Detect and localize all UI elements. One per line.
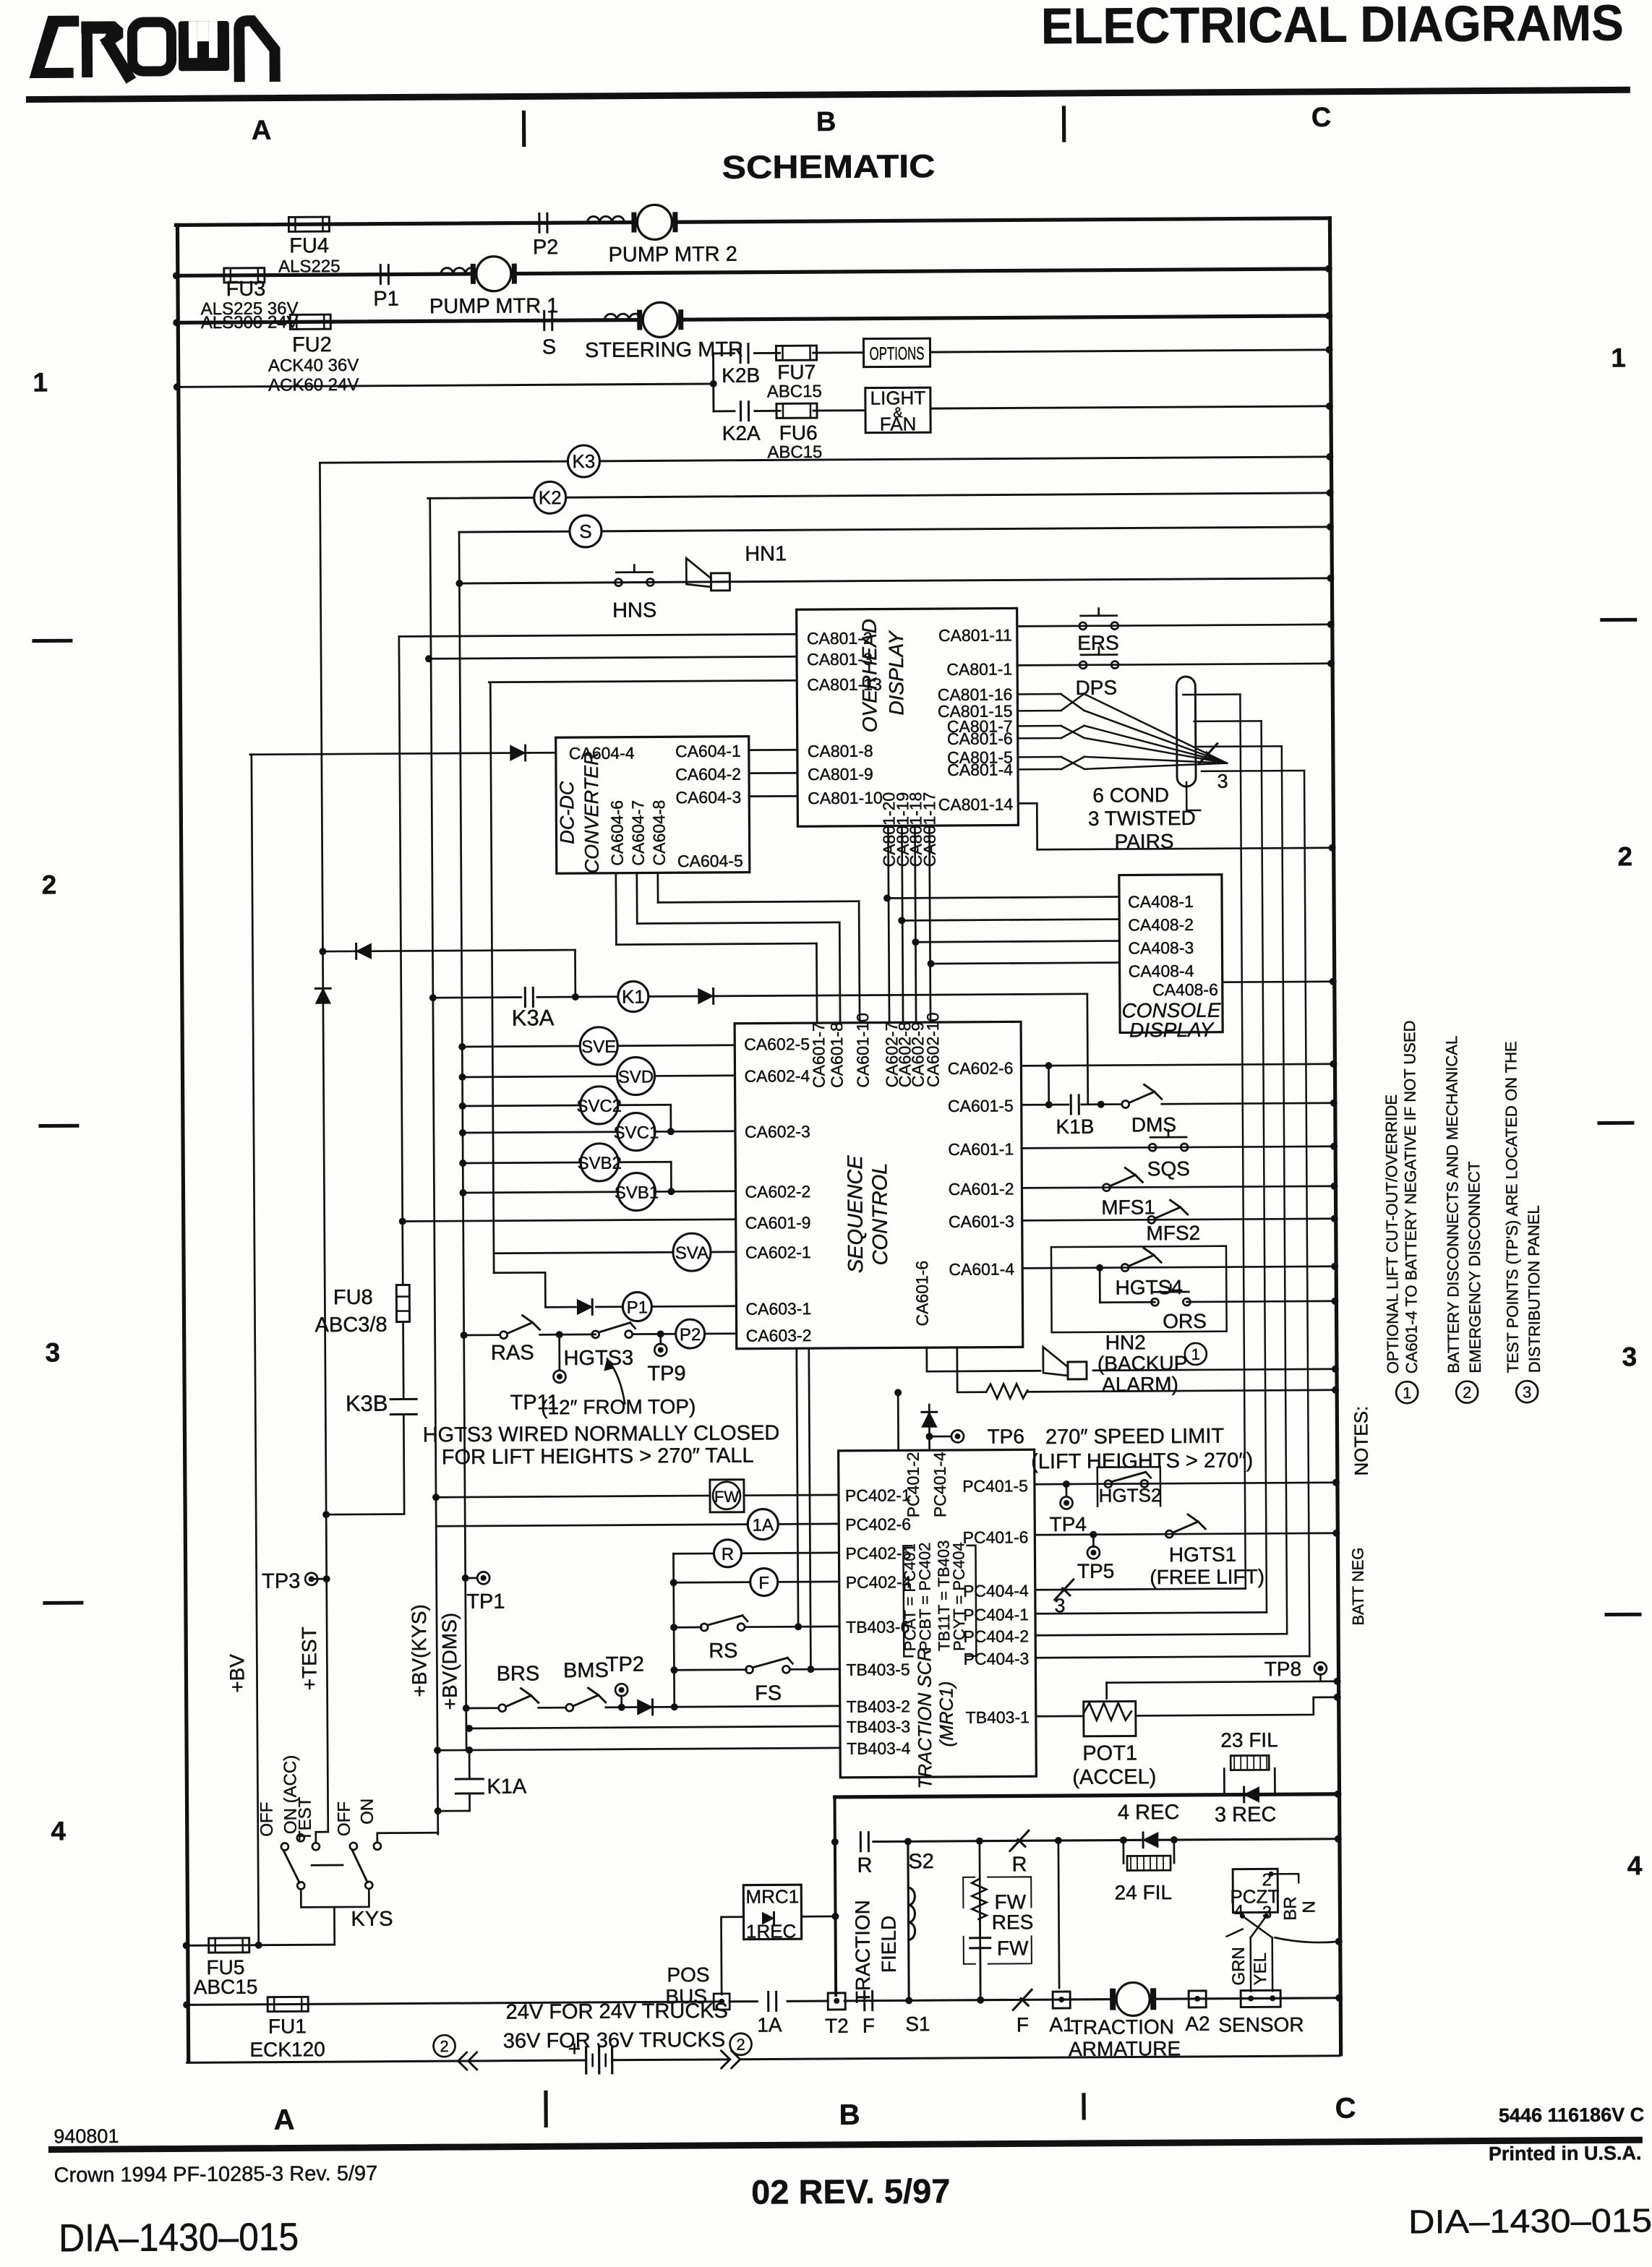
svg-text:PUMP MTR 2: PUMP MTR 2 <box>608 243 737 267</box>
svg-text:CA602-1: CA602-1 <box>745 1243 811 1262</box>
twisted pair at y962 <box>1061 694 1084 711</box>
wire rail x682 <box>490 682 494 1273</box>
slash 3-conductor DPS <box>1199 744 1217 764</box>
wire OPTIONS to bus <box>930 350 1330 352</box>
wire CA602-6 to K1B <box>1048 1066 1050 1105</box>
svg-text:2: 2 <box>440 2037 448 2055</box>
svg-text:F: F <box>863 2015 875 2037</box>
wire PC404-2 row <box>1035 1634 1287 1635</box>
contact K1A <box>455 1778 483 1780</box>
wire PC404-1 row <box>1035 1612 1267 1614</box>
node 24FIL left <box>1120 1837 1127 1844</box>
switch BRS <box>499 1705 506 1712</box>
wire resistor to bus <box>1027 1390 1335 1392</box>
svg-text:940801: 940801 <box>54 2125 119 2148</box>
svg-text:RS: RS <box>709 1640 737 1663</box>
wire CA408-6 to bus <box>1223 980 1333 983</box>
svg-text:DC-DC: DC-DC <box>556 781 578 844</box>
wire POT1 wiper to bus <box>1107 1681 1338 1683</box>
svg-text:(LIFT HEIGHTS > 270″): (LIFT HEIGHTS > 270″) <box>1031 1449 1253 1473</box>
contact 1A <box>767 1992 769 2010</box>
svg-text:C: C <box>1335 2093 1356 2125</box>
svg-text:ORS: ORS <box>1163 1310 1207 1332</box>
svg-text:2: 2 <box>1617 841 1632 871</box>
svg-text:PC404-1: PC404-1 <box>963 1605 1029 1624</box>
wire to ORS <box>1099 1268 1101 1303</box>
svg-text:F: F <box>758 1573 769 1593</box>
svg-text:K2: K2 <box>539 487 562 508</box>
node +BV(KYS) PC402-1 tap <box>432 1494 440 1501</box>
test point TP2 <box>615 1684 628 1696</box>
node right bus 4REC <box>1335 1835 1342 1843</box>
svg-text:FW: FW <box>714 1488 740 1506</box>
node right bus S <box>1327 523 1334 531</box>
svg-text:(BACKUP: (BACKUP <box>1097 1352 1188 1375</box>
contact K1B <box>1070 1095 1072 1114</box>
test point TP9 <box>654 1344 667 1356</box>
switch HGTS4 <box>1121 1264 1129 1271</box>
svg-text:Printed in U.S.A.: Printed in U.S.A. <box>1489 2142 1642 2164</box>
motor TRACTION ARMATURE <box>1116 1982 1150 2015</box>
svg-text:4 REC: 4 REC <box>1118 1801 1180 1825</box>
svg-text:S: S <box>542 335 557 359</box>
wire CA801-20/CA602-7 link <box>888 826 889 1022</box>
wire FU5 row <box>187 1945 335 1945</box>
svg-text:(12″ FROM TOP): (12″ FROM TOP) <box>541 1395 696 1418</box>
wire drop vertical x1748 <box>1262 721 1267 1612</box>
svg-text:YEL: YEL <box>1251 1953 1270 1986</box>
header rule <box>29 90 1627 99</box>
node CA408-2 tap <box>898 917 905 924</box>
box U-SEQUENCE-CONTROL <box>735 1021 1023 1348</box>
wire CA801-18/CA602-9 link <box>915 826 916 1022</box>
chevrons right <box>722 2051 730 2060</box>
node right bus CA601-4 <box>1331 1263 1338 1270</box>
svg-text:CA801-2: CA801-2 <box>807 629 873 648</box>
svg-text:SVD: SVD <box>618 1067 654 1087</box>
wire R/S2/4REC row <box>873 1839 1338 1842</box>
wire PC404-3 row <box>1035 1656 1309 1658</box>
node right bus K3 <box>1326 453 1333 460</box>
wire BMS to TB403-2 <box>606 1706 840 1707</box>
solenoid SVC2 <box>581 1087 618 1124</box>
wire SVD to CA602-4 <box>655 1074 735 1076</box>
svg-text:CA801-3: CA801-3 <box>807 650 873 669</box>
column tick A-B top <box>522 112 526 145</box>
column tick B-C bottom <box>1082 2095 1085 2118</box>
wire K1 output drop to K1B row <box>1086 994 1089 1105</box>
svg-text:1: 1 <box>1403 1384 1411 1402</box>
svg-text:OFF: OFF <box>335 1801 354 1836</box>
wire CA408-3 row <box>915 941 1119 943</box>
wire rail x1117 <box>809 1348 811 1669</box>
diode P1 feed <box>577 1300 592 1315</box>
node right bus POT1 wiper <box>1334 1678 1341 1685</box>
wire TP6 branch to PC401-4 <box>928 1405 930 1450</box>
connector POS BUS <box>714 1994 729 2010</box>
svg-text:R: R <box>857 1854 873 1877</box>
svg-text:CA408-4: CA408-4 <box>1129 961 1194 981</box>
node FW RES bottom <box>977 1997 984 2004</box>
svg-text:FU4: FU4 <box>289 234 329 257</box>
svg-text:P2: P2 <box>680 1325 701 1345</box>
svg-text:CA602-5: CA602-5 <box>744 1034 810 1054</box>
svg-text:CA601-9: CA601-9 <box>745 1213 811 1233</box>
wire DMS to bus <box>1162 1103 1334 1104</box>
wire GRN <box>1249 1937 1251 1991</box>
svg-text:FU7: FU7 <box>777 361 816 383</box>
diode K1 output <box>698 989 714 1004</box>
svg-text:B: B <box>839 2099 860 2131</box>
node K1 feed <box>572 993 579 1000</box>
solenoid SVA <box>673 1233 711 1271</box>
svg-text:CA601-3: CA601-3 <box>949 1212 1014 1231</box>
resistor FW RES <box>972 1879 986 1919</box>
wire P2 to CA603-2 <box>705 1332 737 1334</box>
svg-text:PCYT = PC404: PCYT = PC404 <box>949 1542 968 1651</box>
wire DPS pair stub 1 <box>1183 693 1240 695</box>
wire to K2A <box>714 410 735 412</box>
node right bus PCZT <box>1335 1938 1343 1945</box>
node right bus 3REC <box>1334 1791 1341 1798</box>
fuse FU1 <box>268 1997 308 2011</box>
wire armature row <box>844 1998 1339 2001</box>
svg-text:CA601-4: CA601-4 <box>949 1259 1014 1279</box>
svg-text:CA408-2: CA408-2 <box>1128 915 1194 935</box>
wire HGTS3 to P2 <box>633 1333 676 1335</box>
box LIGHT & FAN <box>865 387 930 433</box>
svg-text:PC404-2: PC404-2 <box>963 1627 1029 1646</box>
svg-text:1: 1 <box>33 367 48 397</box>
leader HGTS3 note arrow <box>607 1359 625 1404</box>
svg-text:CA604-6: CA604-6 <box>607 800 627 866</box>
terminal A1 <box>1053 1992 1070 2008</box>
switch R slash <box>1010 1830 1029 1851</box>
wire K3 coil row <box>320 457 1330 463</box>
coil R <box>714 1540 741 1567</box>
svg-text:CA601-1: CA601-1 <box>948 1139 1014 1159</box>
row dash left 2-3 <box>40 1124 77 1128</box>
svg-text:PC401-5: PC401-5 <box>962 1476 1028 1496</box>
svg-text:S: S <box>579 520 592 542</box>
svg-text:ELECTRICAL DIAGRAMS: ELECTRICAL DIAGRAMS <box>1041 0 1624 54</box>
svg-text:RES: RES <box>992 1911 1034 1933</box>
node 24FIL right <box>1170 1836 1178 1843</box>
wire PC402-6 row <box>436 1525 748 1527</box>
row dash left 1-2 <box>34 639 71 643</box>
wire 3REC rail <box>835 1794 1338 1797</box>
node SVB junction <box>667 1188 675 1195</box>
node TP9 tap <box>657 1330 664 1337</box>
svg-text:CA801-4: CA801-4 <box>947 760 1013 779</box>
svg-text:K3: K3 <box>572 450 595 472</box>
svg-text:DMS: DMS <box>1131 1113 1176 1136</box>
svg-text:TP6: TP6 <box>987 1425 1024 1447</box>
node x1117 TB403-5 <box>807 1666 814 1673</box>
box OPTIONS <box>863 338 930 367</box>
wire K2B/K2A branch vertical <box>712 353 714 411</box>
motor STEERING MTR <box>643 302 677 337</box>
wire MRC1 left to POS BUS <box>722 1917 745 1994</box>
contact R <box>860 1833 862 1851</box>
svg-text:A: A <box>252 116 272 146</box>
svg-text:(ACCEL): (ACCEL) <box>1072 1765 1156 1789</box>
node TP2 tap <box>618 1704 625 1711</box>
svg-text:1A: 1A <box>752 1515 774 1535</box>
svg-text:CA801-8: CA801-8 <box>808 742 873 761</box>
node right bus K2 <box>1327 489 1334 497</box>
svg-text:5446 116186V C: 5446 116186V C <box>1499 2104 1644 2126</box>
wire CA801-2 row <box>399 634 797 636</box>
wire PC402-5 row <box>673 1553 714 1555</box>
svg-text:R: R <box>722 1545 735 1564</box>
node CA602-6/K1B link top <box>1045 1062 1052 1069</box>
wire FW RES branch <box>980 1841 980 2000</box>
svg-text:FU8: FU8 <box>333 1286 373 1309</box>
node right bus armature row <box>1335 1994 1343 2002</box>
node TP11 tap <box>556 1331 563 1338</box>
node R contact tap <box>831 1838 839 1846</box>
wire SVA row <box>494 1252 673 1253</box>
wire drop vertical x1719 <box>1240 695 1245 1589</box>
wire FU8 branch upper <box>401 1222 403 1285</box>
wire RS to TB403-6 <box>745 1626 839 1628</box>
node K1B left <box>1045 1101 1053 1108</box>
switch HGTS3 <box>592 1331 599 1338</box>
wire staircase to CA601-7 <box>616 943 816 945</box>
node +BV rail bottom <box>255 1942 262 1949</box>
box U-TRACTION-SCR-MRC1 <box>839 1449 1037 1778</box>
node SVC1 tap <box>459 1129 466 1136</box>
svg-text:A: A <box>274 2104 295 2135</box>
svg-text:TB403-5: TB403-5 <box>846 1660 910 1679</box>
wire row FU4 / pump motor 2 <box>176 218 1328 226</box>
coil F <box>750 1568 778 1595</box>
capacitor FW <box>970 1937 990 1939</box>
node SVB2 tap <box>459 1160 466 1167</box>
svg-text:P1: P1 <box>373 288 399 311</box>
node HGTS4 branch <box>1096 1264 1103 1272</box>
contact S <box>543 311 545 330</box>
wire CA801-13 row <box>489 680 797 682</box>
wire CA601-8 riser <box>839 922 842 1023</box>
node A1 riser top <box>1055 1837 1062 1844</box>
coil 1A <box>748 1509 778 1539</box>
svg-text:CA604-5: CA604-5 <box>677 852 743 871</box>
diode TB403-2 <box>638 1700 653 1715</box>
wire rail x928 <box>673 1554 674 1707</box>
svg-text:OPTIONS: OPTIONS <box>869 343 924 364</box>
svg-text:CA601-4 TO BATTERY NEGATIVE IF: CA601-4 TO BATTERY NEGATIVE IF NOT USED <box>1400 1020 1421 1374</box>
switch RAS <box>500 1332 508 1339</box>
svg-text:3: 3 <box>1622 1342 1637 1371</box>
wire staircase to CA601-10 <box>658 901 859 903</box>
diode 4 REC <box>1143 1833 1158 1848</box>
svg-text:T2: T2 <box>825 2015 849 2037</box>
contact K2B <box>739 344 741 363</box>
wire CA604-5 drop <box>656 873 659 902</box>
wire to K3A <box>433 996 521 998</box>
solenoid SVC1 <box>617 1113 655 1150</box>
node FS tap <box>670 1666 677 1674</box>
switch BMS <box>566 1704 573 1711</box>
wire RAS to HGTS3 <box>540 1334 596 1336</box>
svg-text:CA602-4: CA602-4 <box>744 1066 810 1086</box>
wire SVC2 row <box>463 1105 581 1107</box>
svg-text:MFS1: MFS1 <box>1101 1196 1155 1218</box>
svg-text:1REC: 1REC <box>746 1920 797 1942</box>
row dash right 2-3 <box>1599 1121 1632 1125</box>
node TP1 tap <box>462 1574 469 1582</box>
wire HN2 to bus <box>1093 1369 1335 1371</box>
svg-text:+TEST: +TEST <box>298 1627 321 1690</box>
connector marker 2 right <box>729 2034 751 2055</box>
svg-text:2: 2 <box>1463 1384 1471 1402</box>
column tick B-C top <box>1062 108 1066 140</box>
node TB403-3 tap <box>466 1725 473 1732</box>
svg-text:HGTS2: HGTS2 <box>1099 1484 1162 1507</box>
wire diode feed row <box>322 950 575 951</box>
row dash left 3-4 <box>45 1601 82 1605</box>
note marker 1 at ORS <box>1185 1343 1207 1365</box>
svg-text:DIA–1430–015: DIA–1430–015 <box>1408 2201 1652 2240</box>
svg-text:TRACTION: TRACTION <box>851 1900 874 2003</box>
wire drop to K1 row <box>574 950 576 997</box>
box PCZT <box>1233 1869 1277 1912</box>
svg-text:SVA: SVA <box>675 1243 709 1263</box>
svg-text:OFF: OFF <box>257 1802 277 1837</box>
horn HN2 backup alarm <box>1068 1362 1087 1379</box>
svg-text:36V FOR 36V TRUCKS: 36V FOR 36V TRUCKS <box>503 2028 725 2053</box>
wire TP2 stem <box>620 1696 622 1707</box>
wire CA602-6 row <box>1021 1064 1333 1066</box>
node FW RES top <box>976 1838 983 1845</box>
svg-text:CA604-7: CA604-7 <box>628 800 648 866</box>
wire SVC2 jog <box>618 1104 671 1106</box>
svg-text:CA603-1: CA603-1 <box>745 1299 811 1319</box>
svg-text:CA604-1: CA604-1 <box>675 742 741 761</box>
wire battery row right <box>612 2058 729 2061</box>
svg-text:HNS: HNS <box>612 599 656 622</box>
wire FU8 to K3B <box>402 1322 404 1400</box>
node PCZT pin2 <box>1269 1872 1274 1877</box>
wire CA601-10 riser <box>859 901 860 1023</box>
assembly 24 FIL <box>1123 1840 1125 1864</box>
svg-text:POS: POS <box>667 1963 709 1986</box>
coil P2 <box>676 1319 705 1348</box>
svg-text:PC401-6: PC401-6 <box>962 1527 1028 1547</box>
node right bus ORS <box>1331 1298 1338 1305</box>
wire MRC1 right <box>801 1916 835 1918</box>
svg-text:ON: ON <box>358 1799 377 1825</box>
svg-text:CA408-6: CA408-6 <box>1152 980 1218 1000</box>
contact F field <box>863 1992 865 2010</box>
coil K1 <box>618 981 649 1011</box>
svg-text:HN1: HN1 <box>745 542 787 565</box>
wire FU7 to OPTIONS <box>813 351 864 353</box>
test point TP5 <box>1087 1546 1100 1559</box>
wire TB403-2 row left <box>466 1707 499 1709</box>
box U-DC-DC-CONVERTER <box>556 737 750 874</box>
wire TP5 stem <box>1092 1535 1095 1547</box>
svg-text:24 FIL: 24 FIL <box>1115 1881 1173 1903</box>
switch FS <box>745 1666 753 1674</box>
svg-text:6 COND: 6 COND <box>1092 784 1169 807</box>
svg-text:CA408-1: CA408-1 <box>1128 892 1194 912</box>
svg-text:CA601-2: CA601-2 <box>949 1179 1014 1199</box>
node CA408-3 tap <box>912 938 919 946</box>
svg-text:ABC3/8: ABC3/8 <box>315 1314 388 1337</box>
wire CA601-5 stub <box>1022 1104 1069 1106</box>
wire PCZT pin2 jog <box>1271 1874 1298 1882</box>
svg-text:CA604-8: CA604-8 <box>649 800 669 866</box>
node right bus row3 <box>1325 312 1332 320</box>
svg-text:4: 4 <box>1627 1851 1643 1880</box>
svg-text:FW: FW <box>995 1890 1027 1913</box>
test point TP4 <box>1061 1496 1073 1509</box>
svg-text:FU6: FU6 <box>779 421 818 444</box>
fuse FU7 <box>776 346 816 360</box>
wire FS to TB403-5 <box>789 1668 839 1671</box>
svg-text:RAS: RAS <box>491 1341 534 1364</box>
wire CA601-9 row <box>403 1220 736 1222</box>
svg-text:CA801-13: CA801-13 <box>807 675 882 695</box>
node +BV(KYS) K3A tap <box>429 994 437 1001</box>
test point TP3 <box>305 1573 317 1585</box>
svg-text:BATT NEG: BATT NEG <box>1348 1548 1367 1626</box>
wire S coil row <box>459 527 1330 532</box>
svg-text:BATTERY DISCONNECTS AND MECHAN: BATTERY DISCONNECTS AND MECHANICAL <box>1442 1036 1463 1374</box>
svg-text:FOR LIFT HEIGHTS > 270″ TALL: FOR LIFT HEIGHTS > 270″ TALL <box>442 1444 754 1470</box>
wire SVB2 jog <box>618 1161 671 1163</box>
svg-text:DISTRIBUTION PANEL: DISTRIBUTION PANEL <box>1525 1205 1544 1373</box>
test point TP11 <box>553 1371 565 1383</box>
wire SVB1 to CA602-2 <box>655 1190 735 1192</box>
svg-text:SQS: SQS <box>1147 1157 1190 1180</box>
wire rail +TEST x448 <box>320 464 328 1832</box>
wire riser to A1 <box>1058 1840 1059 1988</box>
svg-text:GRN: GRN <box>1229 1947 1249 1986</box>
svg-text:FS: FS <box>755 1681 782 1705</box>
svg-text:(FREE LIFT): (FREE LIFT) <box>1150 1565 1264 1588</box>
svg-text:CONVERTER: CONVERTER <box>581 751 603 873</box>
svg-text:PC404-4: PC404-4 <box>963 1581 1029 1600</box>
svg-text:Crown 1994 PF-10285-3 Rev. 5/9: Crown 1994 PF-10285-3 Rev. 5/97 <box>54 2162 378 2187</box>
svg-text:CA801-1: CA801-1 <box>946 659 1012 679</box>
test point TP8 <box>1314 1662 1327 1674</box>
svg-text:2: 2 <box>42 870 57 899</box>
wire SVC1 row <box>463 1132 617 1133</box>
switch HNS <box>615 579 622 586</box>
svg-text:270″ SPEED LIMIT: 270″ SPEED LIMIT <box>1045 1425 1225 1449</box>
resistor backup-alarm <box>986 1384 1027 1398</box>
fuse FU8 <box>396 1285 409 1321</box>
fuse FU3 <box>224 268 265 283</box>
node right bus CA601-3 <box>1331 1215 1338 1222</box>
svg-text:OPTIONAL LIFT CUT-OUT/OVERRIDE: OPTIONAL LIFT CUT-OUT/OVERRIDE <box>1382 1094 1402 1374</box>
svg-text:PC402-1: PC402-1 <box>845 1486 911 1505</box>
note marker 2 <box>1456 1381 1478 1403</box>
wire CA604-1 to CA801-8 <box>749 749 797 751</box>
svg-text:BMS: BMS <box>563 1659 609 1682</box>
node right bus resistor row <box>1332 1387 1339 1394</box>
svg-text:CA602-6: CA602-6 <box>948 1058 1014 1078</box>
link KYS blades <box>312 1864 343 1867</box>
twisted pair at y1049 <box>1061 757 1084 769</box>
svg-text:PUMP MTR 1: PUMP MTR 1 <box>429 294 559 318</box>
svg-text:CA601-10: CA601-10 <box>853 1013 873 1088</box>
wire POS BUS to 1A <box>729 2000 757 2002</box>
